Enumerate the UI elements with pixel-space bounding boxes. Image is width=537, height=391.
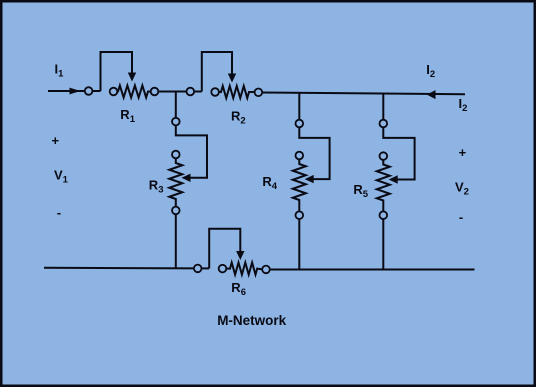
wire to R2 bypass <box>195 91 202 93</box>
node terminal circle above R4 <box>296 120 304 128</box>
node terminal circle above R5 <box>380 120 388 128</box>
wire stub down to R4 branch <box>298 93 300 124</box>
svg-text:+: + <box>52 133 60 148</box>
wiper arrow R3 <box>182 174 191 182</box>
wire bypass over R6 <box>209 229 240 269</box>
wire elbow to R3 wiper <box>176 126 207 178</box>
wire bottom rail left <box>44 267 198 270</box>
wire elbow to R4 wiper <box>299 128 329 179</box>
wiper arrow R5 <box>389 175 398 183</box>
resistor R4 <box>293 152 306 219</box>
wire elbow to R5 wiper <box>383 128 414 180</box>
svg-text:-: - <box>57 205 61 220</box>
wire stub down to R3 branch <box>175 92 177 122</box>
resistor R2 <box>211 86 262 98</box>
wiper arrow R4 <box>305 175 314 183</box>
wire bypass over R2 <box>202 52 232 92</box>
wire stub down to R5 branch <box>382 94 384 124</box>
wire bypass over R1 <box>101 52 133 91</box>
resistor R6 <box>219 263 270 275</box>
svg-text:M-Network: M-Network <box>217 313 286 328</box>
wire to R6 bypass <box>202 267 209 269</box>
node terminal circle above R3 <box>172 118 180 126</box>
wiper arrow R6 <box>236 251 244 260</box>
resistor R3 <box>169 151 182 215</box>
current arrow I1 <box>69 90 80 92</box>
resistor R1 <box>110 86 159 98</box>
wiper arrow R1 <box>128 73 136 82</box>
node terminal circle input <box>85 87 93 95</box>
svg-text:+: + <box>459 145 467 160</box>
wire between R1 and node <box>159 91 191 93</box>
wire top-left input segment <box>48 90 101 92</box>
wire R4 to bottom rail <box>298 219 300 269</box>
wire R3 to bottom rail <box>175 215 177 269</box>
wire R5 to bottom rail <box>382 219 384 269</box>
wiper arrow R2 <box>228 74 236 83</box>
wire top rail right <box>263 93 465 95</box>
resistor R5 <box>377 152 390 219</box>
svg-text:-: - <box>459 210 463 225</box>
node terminal circle mid top rail <box>187 88 195 96</box>
current arrow I2 <box>427 90 436 99</box>
node terminal circle bottom rail <box>194 265 202 273</box>
wire bottom rail right <box>270 269 474 271</box>
